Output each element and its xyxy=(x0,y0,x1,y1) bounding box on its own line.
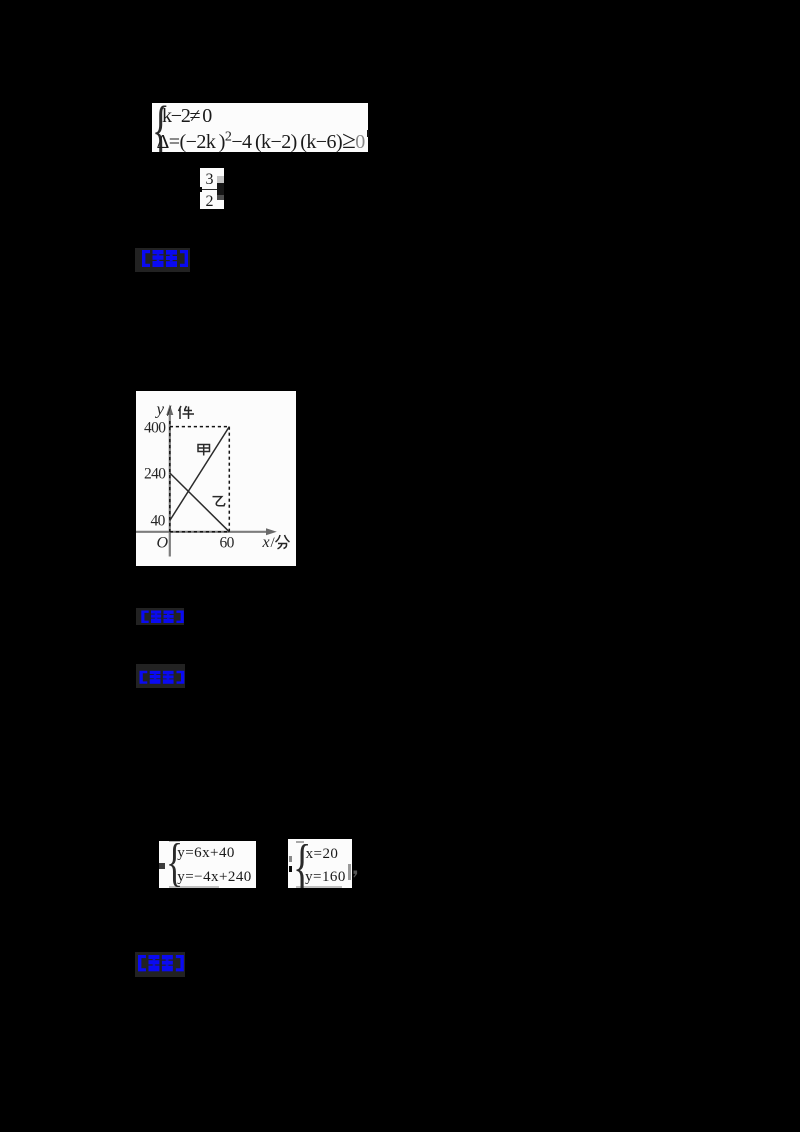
line 甲 (rising) xyxy=(170,427,230,521)
dashed horizontal on x-axis (y=0 of box) xyxy=(170,531,230,533)
faint scan smudges top/bottom edges xyxy=(296,841,303,843)
fraction bar xyxy=(202,189,220,191)
x-axis xyxy=(136,531,271,533)
blue label 3 highlighted marker xyxy=(136,664,185,688)
dark gray fragment at left edge xyxy=(159,863,165,869)
x-axis arrowhead xyxy=(266,528,277,535)
gray bar at right edge xyxy=(348,864,351,880)
dashed vertical on y-axis (x=0 of box) xyxy=(169,421,171,532)
system image: {y=6x+40 ; y=-4x+240 xyxy=(159,841,256,888)
svg-text:400: 400 xyxy=(144,420,166,437)
numerator 3 xyxy=(206,172,214,188)
line 乙 (falling) xyxy=(170,473,230,532)
乙 xyxy=(213,497,226,506)
blue label 2 highlighted marker xyxy=(136,608,184,626)
formula image: system k-2≠0 ; Δ=(-2k)²-4(k-2)(k-6)≥0 xyxy=(152,103,368,152)
svg-text:y: y xyxy=(155,400,165,419)
dashed horizontal y=400 xyxy=(170,426,230,428)
line k-2≠0 xyxy=(162,106,211,126)
fraction 3/2 image xyxy=(200,168,224,209)
svg-text:O: O xyxy=(157,535,169,552)
gray block upper right xyxy=(217,176,224,183)
甲 xyxy=(198,445,210,456)
system image: {x=20 ; y=160 xyxy=(288,839,352,888)
分 xyxy=(276,535,290,549)
svg-text:x: x xyxy=(262,534,270,551)
svg-text:/: / xyxy=(271,535,276,551)
dashed vertical x=60 xyxy=(228,427,230,532)
left curly brace xyxy=(166,833,183,893)
gray + black fragments at left edge xyxy=(289,856,293,862)
line x=20 xyxy=(306,847,339,862)
faint scan smudges top/bottom edges xyxy=(169,841,180,843)
svg-text:60: 60 xyxy=(220,535,235,552)
件 xyxy=(179,406,182,419)
chart figure (white box) xyxy=(136,391,296,566)
line y=6x+40 xyxy=(177,846,235,861)
black tick overlapping left edge xyxy=(199,187,202,192)
blue label 1 highlighted marker xyxy=(135,248,190,272)
denominator 2 xyxy=(206,194,214,210)
line Δ=(-2k)²-4(k-2)(k-6)≥0 xyxy=(157,128,365,153)
y-axis arrowhead xyxy=(166,405,173,416)
y-axis xyxy=(169,411,171,557)
cursor notch at right edge of formula box xyxy=(367,130,370,137)
svg-text:240: 240 xyxy=(144,466,166,483)
dark marks right xyxy=(217,183,224,195)
left curly brace xyxy=(293,830,311,904)
line y=-4x+240 xyxy=(177,870,251,885)
svg-text:40: 40 xyxy=(151,513,166,530)
svg-text:/: / xyxy=(167,403,172,420)
dark comma after second system xyxy=(353,866,357,873)
left curly brace xyxy=(152,92,170,169)
line y=160 xyxy=(305,870,346,885)
blue label 4 highlighted marker xyxy=(135,952,185,977)
